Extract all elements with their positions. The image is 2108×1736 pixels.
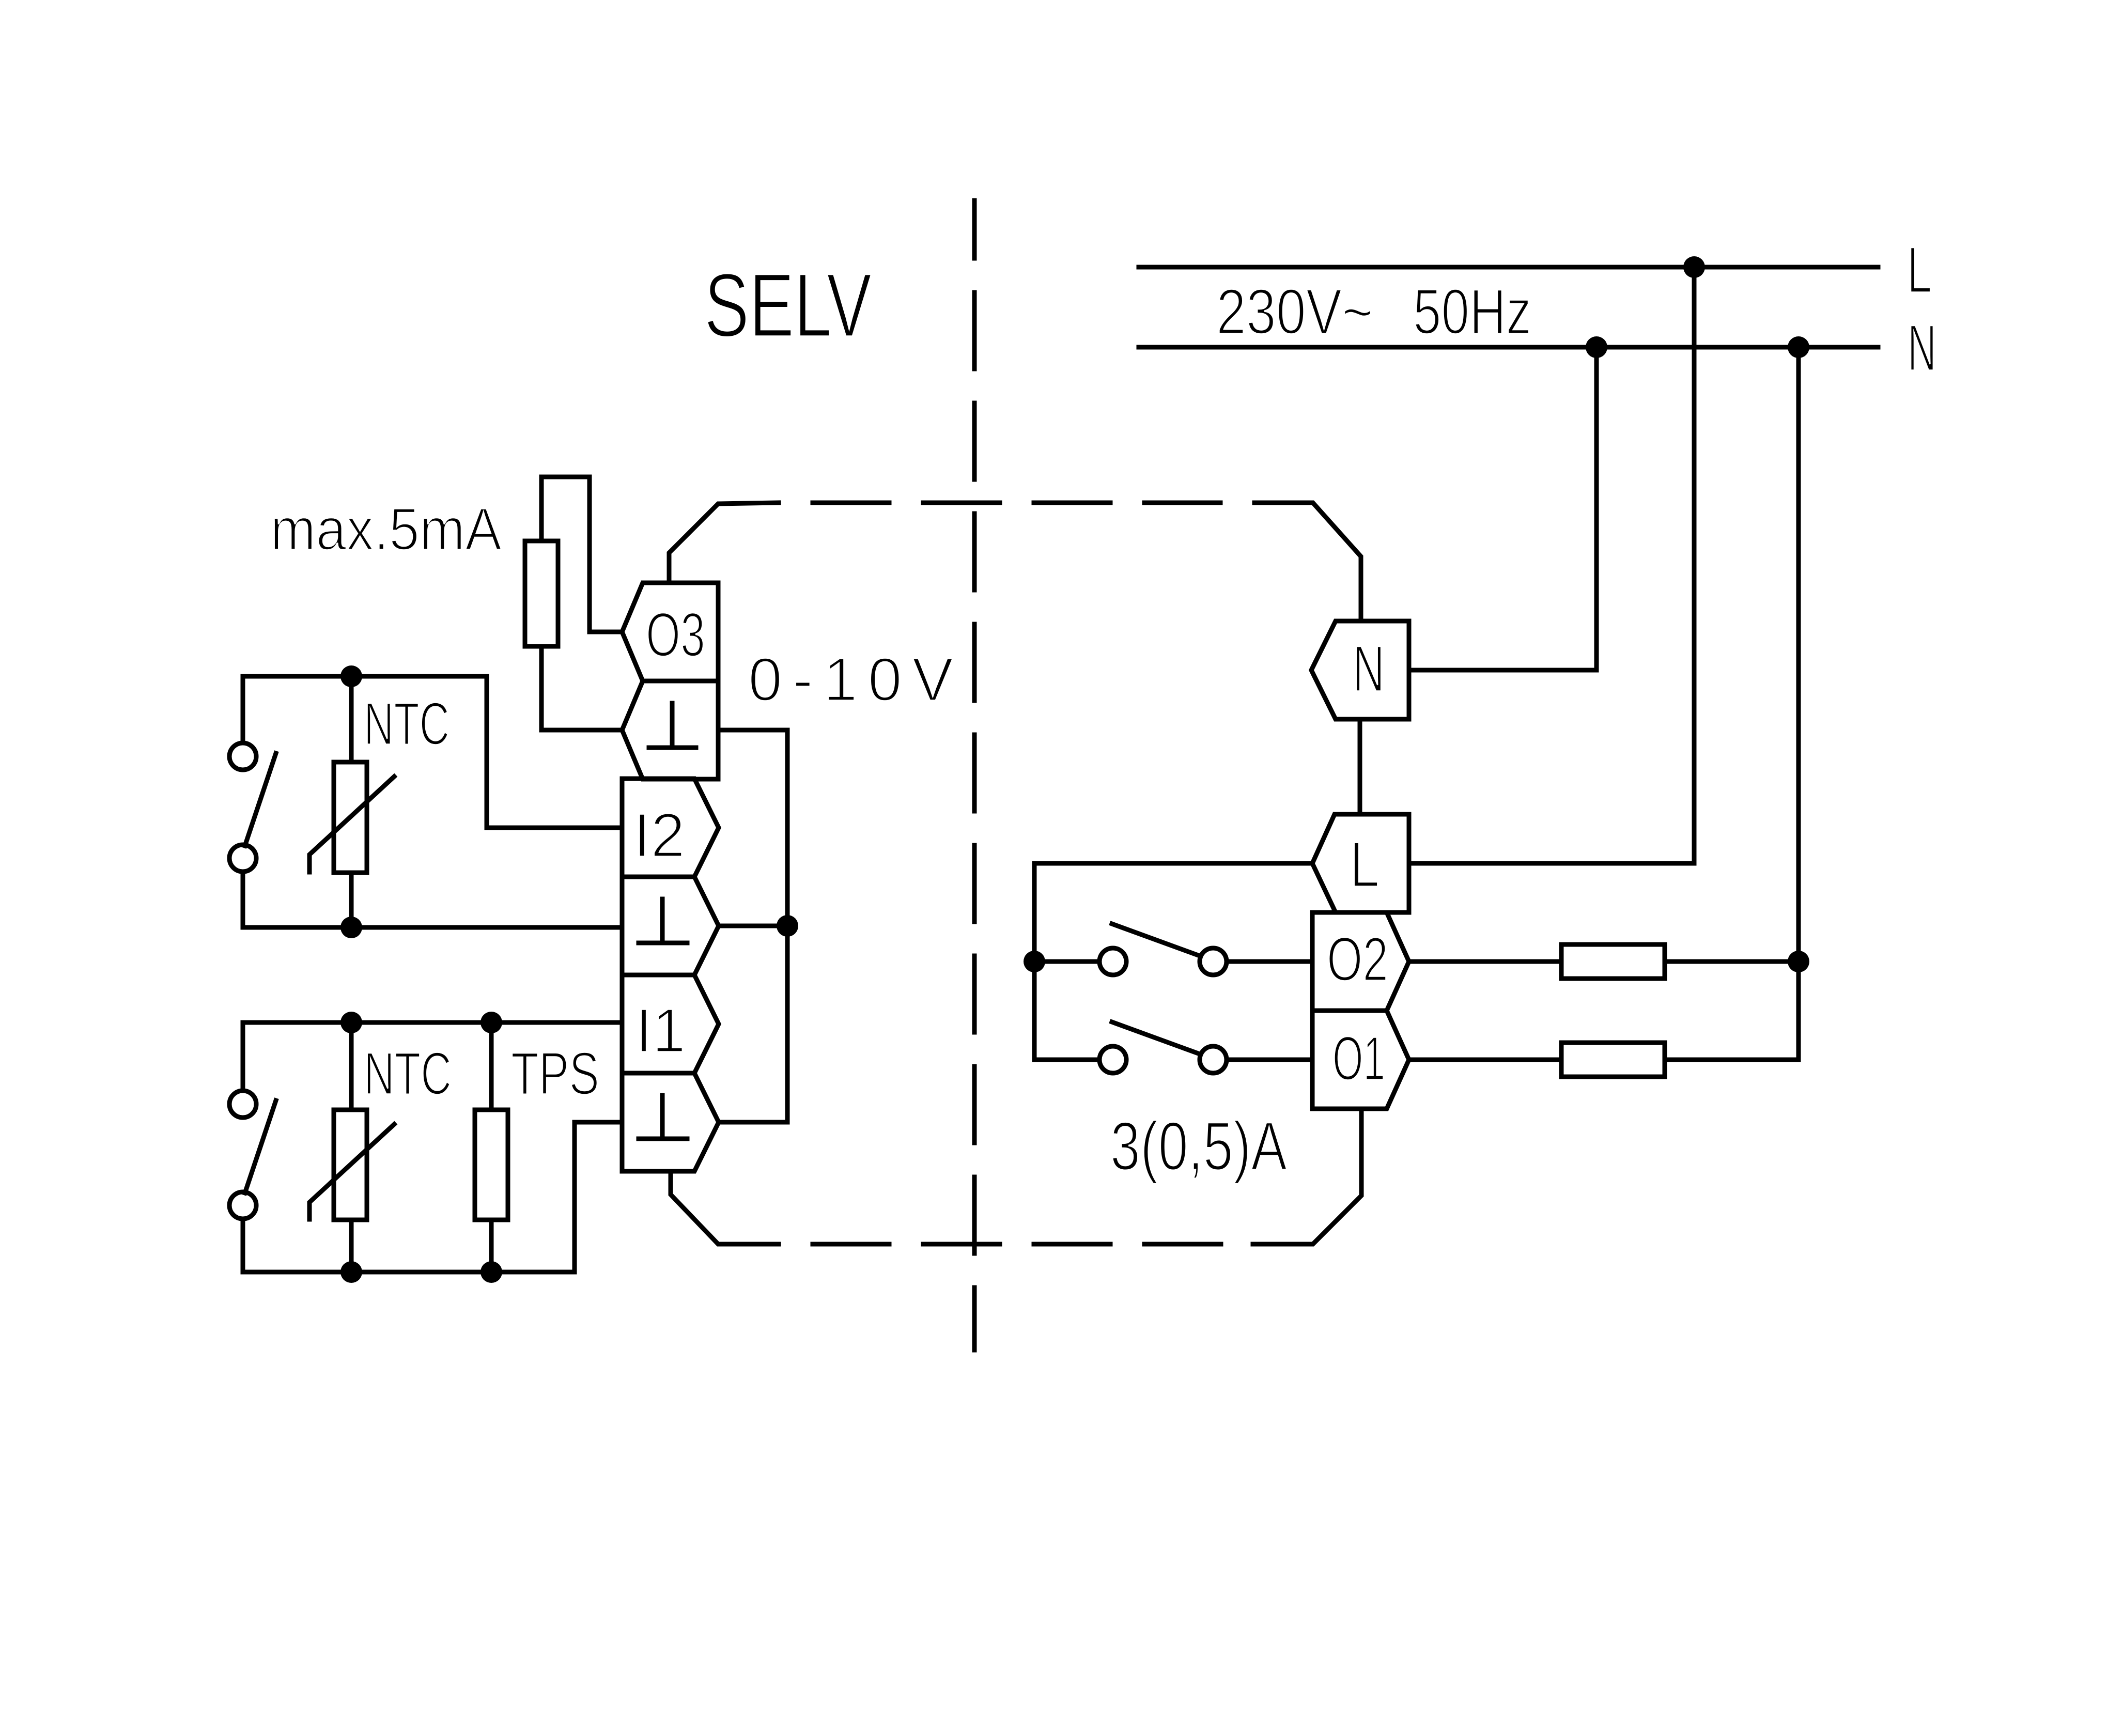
thermistor NTC1 xyxy=(349,676,354,762)
wire (L terminal to L line) xyxy=(1409,267,1694,863)
node (N line junction 1) xyxy=(1586,336,1607,358)
svg-text:L: L xyxy=(1350,829,1380,901)
wire (L vertex to external switch branch) xyxy=(1034,861,1312,866)
terminal gnd2 (between I2 and I1) xyxy=(622,877,719,975)
svg-text:O2: O2 xyxy=(1327,924,1388,994)
SELV separation dashed divider (vertical) xyxy=(972,200,977,1350)
terminal L xyxy=(1312,814,1409,912)
sensor group 1: top wire xyxy=(243,674,487,679)
svg-text:NTC: NTC xyxy=(364,1040,452,1107)
mains line L xyxy=(1139,265,1878,270)
svg-text:N: N xyxy=(1353,632,1385,705)
svg-text:TPS: TPS xyxy=(511,1040,599,1107)
wire (R1 top hook to O3 vertex) xyxy=(541,477,622,632)
sensor group 2: top wire to I1 input xyxy=(243,1020,622,1025)
wire (N box to L box stub) xyxy=(1358,719,1362,814)
switch S3 (to O2) xyxy=(1034,959,1099,964)
terminal gnd3 (below I1) xyxy=(622,1073,719,1171)
node (bus / gnd2 junction) xyxy=(777,915,798,937)
wire (R1 bottom to terminal gnd1 vertex) xyxy=(541,646,622,730)
ground symbol (gnd2) xyxy=(639,899,687,943)
svg-text:50Hz: 50Hz xyxy=(1413,276,1531,348)
terminal I2 xyxy=(622,779,719,877)
wire (gnd2 vertex to bus) xyxy=(719,924,787,928)
wire (load 2 to N branch) xyxy=(1665,1058,1799,1062)
wire (O1 vertex to load 2) xyxy=(1409,1058,1561,1062)
wire (gnd3 stub down to bottom dashed link) xyxy=(671,1171,779,1244)
mains line N xyxy=(1139,345,1878,350)
node (N line junction 2) xyxy=(1788,336,1809,358)
svg-text:NTC: NTC xyxy=(364,690,450,757)
node (sensor1 bottom / NTC junction) xyxy=(340,917,362,938)
svg-text:N: N xyxy=(1908,311,1936,384)
wire (load 1 to N branch) xyxy=(1665,959,1799,964)
load resistor (O2 load) xyxy=(1561,944,1665,979)
sensor group 2: bottom wire xyxy=(243,1270,575,1275)
sensor group 1: bottom wire to gnd2 xyxy=(243,925,622,930)
svg-text:I2: I2 xyxy=(633,800,685,870)
wire (switch branch vertical) xyxy=(1032,863,1037,1060)
svg-text:O1: O1 xyxy=(1332,1023,1385,1093)
wire (O2 vertex to load 1) xyxy=(1409,959,1561,964)
terminal gnd1 (0V for O3) xyxy=(622,681,718,779)
svg-text:3(0,5)A: 3(0,5)A xyxy=(1110,1108,1287,1185)
node (sensor2 top / NTC2 junction) xyxy=(340,1012,362,1033)
terminal O2 xyxy=(1312,912,1409,1011)
svg-text:230V~: 230V~ xyxy=(1216,276,1373,348)
sensor TPS xyxy=(489,1022,494,1110)
node (L line junction) xyxy=(1683,256,1705,278)
switch S4 (to O1) xyxy=(1034,1058,1099,1062)
svg-text:L: L xyxy=(1907,233,1932,306)
load resistor (O1 load) xyxy=(1561,1043,1665,1077)
wire (dashed link bottom, left half) xyxy=(813,1242,1253,1247)
wire (O3 stub up to SELV dashed link) xyxy=(669,503,779,583)
ground symbol (gnd3) xyxy=(639,1095,687,1139)
wire (sensor2 bottom to gnd3 input) xyxy=(575,1122,622,1272)
svg-text:SELV: SELV xyxy=(704,255,872,356)
terminal O1 xyxy=(1312,1011,1409,1109)
svg-text:max.5mA: max.5mA xyxy=(270,495,502,563)
switch S2 (window contact, lower group) xyxy=(241,1022,245,1091)
node (switch branch junction) xyxy=(1024,951,1045,972)
resistor R1 (max.5mA limiting resistor) xyxy=(525,541,558,646)
switch S1 (window contact, upper group) xyxy=(241,676,245,743)
svg-text:O3: O3 xyxy=(646,599,705,670)
wire (dashed link top, right half solid lead-in to N stub) xyxy=(1254,503,1361,621)
terminal I1 xyxy=(622,975,719,1073)
svg-text:I1: I1 xyxy=(636,995,686,1065)
node (sensor2 top / TPS junction) xyxy=(481,1012,502,1033)
wire (gnd1 right edge to ground bus) xyxy=(718,728,787,733)
terminal N xyxy=(1311,621,1409,719)
wire (ground bus vertical) xyxy=(785,730,790,1122)
wire (O1 stub down to bottom dashed link, right lead-in) xyxy=(1253,1109,1361,1244)
wire (bus bottom to gnd3 vertex) xyxy=(719,1120,787,1125)
wire (dashed link top, left half) xyxy=(813,501,1220,505)
svg-text:0-10V: 0-10V xyxy=(748,645,953,714)
node (sensor2 bottom / TPS junction) xyxy=(481,1261,502,1283)
thermistor NTC2 xyxy=(349,1022,354,1110)
node (sensor1 top / NTC junction) xyxy=(340,665,362,687)
ground symbol (gnd1) xyxy=(649,703,696,748)
wire (N terminal to N line) xyxy=(1409,347,1597,670)
terminal O3 xyxy=(622,583,718,681)
node (sensor2 bottom / NTC2 junction) xyxy=(340,1261,362,1283)
wire (sensor1 to I2 input) xyxy=(487,676,622,828)
wire (N branch vertical from N line to loads) xyxy=(1796,347,1801,1060)
node (load 1 / N branch junction) xyxy=(1788,951,1809,972)
